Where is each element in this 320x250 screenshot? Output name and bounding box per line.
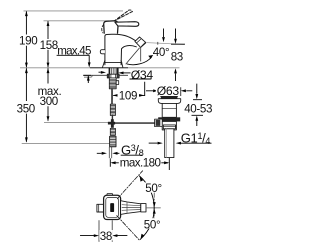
handle axis line [146, 207, 160, 209]
max.45 lower tick and up arrow (deck underside) [83, 75, 91, 83]
upper 50 degree dashed ray [117, 171, 142, 199]
handle grip [121, 201, 141, 215]
label 50deg lower [143, 218, 160, 228]
faucet lever blade [115, 22, 139, 27]
svg-text:40-53: 40-53 [184, 102, 212, 115]
svg-text:83: 83 [171, 50, 183, 63]
dimension 109 line and arrows [112, 82, 145, 100]
threaded section lower [110, 128, 115, 135]
pop-up rod horizontal to waste [114, 122, 156, 124]
svg-text:max.45: max.45 [57, 45, 91, 58]
waste flange [158, 99, 180, 104]
pop-up rod reference line (max.300) [44, 122, 108, 124]
dimension 158 vertical line [47, 21, 49, 67]
svg-text:50°: 50° [145, 182, 161, 195]
waste neck and body [162, 103, 176, 117]
dimension max.300 vertical line [47, 68, 49, 120]
faucet base [102, 60, 123, 67]
handle hub [104, 195, 121, 219]
faucet pop-up rod knob [100, 50, 105, 54]
label Ø63 [156, 86, 181, 96]
svg-text:50°: 50° [144, 219, 160, 232]
waste coupling nut [163, 125, 175, 129]
label 190 [18, 35, 37, 46]
dimension 38 arrows [80, 235, 127, 237]
upper 50 degree arc [139, 176, 154, 208]
svg-text:190: 190 [19, 35, 37, 48]
waste side outlet [155, 119, 163, 127]
label 158 [39, 39, 58, 49]
40 degree reference down arrow [163, 29, 165, 38]
mounting nut [107, 74, 119, 78]
waste tailpipe G1 1/4 [165, 129, 174, 158]
G1 1/4 leader arrow and underline [180, 142, 212, 144]
label 38 [99, 230, 112, 240]
lower 50 degree dashed ray [117, 216, 140, 241]
waste seal ring [158, 117, 180, 121]
rod side tab [116, 81, 119, 85]
leader max.45 down arrow to deck [88, 62, 91, 67]
deck slab top dark segment [90, 67, 128, 69]
dimension max.300 arrows [47, 68, 50, 122]
deck mounting surface line [20, 67, 180, 69]
label max.180 [119, 158, 162, 168]
G1 1/4 bracket left arrow [149, 142, 158, 144]
svg-text:38: 38 [100, 230, 112, 243]
svg-text:300: 300 [40, 95, 58, 108]
G3/8 underline [121, 154, 142, 156]
dimension Ø63 line, arrows, extension lines [146, 87, 192, 96]
40 degree angle vertical leg [140, 48, 142, 62]
svg-text:109: 109 [119, 90, 137, 103]
faucet raised lever dashed outline [102, 25, 104, 33]
handle hub slot [110, 203, 114, 212]
dimension Ø34 leader line and right arrow [124, 72, 131, 74]
shank through deck [109, 68, 117, 74]
faucet lever hub [104, 21, 118, 33]
svg-text:Ø34: Ø34 [131, 68, 154, 82]
reference line top of body (158) [44, 20, 110, 22]
leader max.45 underline [57, 55, 90, 62]
svg-text:40°: 40° [153, 46, 169, 59]
dimension 83 top: down arrow to outlet level [171, 29, 185, 45]
dimension 83 bottom: up arrow to deck [175, 73, 177, 81]
waste lower body [162, 121, 176, 129]
dimension 350 vertical line [25, 68, 27, 142]
stud segment [111, 89, 113, 104]
svg-text:G11/4: G11/4 [181, 130, 211, 146]
handle grip end cap [141, 204, 146, 212]
threaded rod upper [109, 78, 116, 89]
threaded section mid [110, 104, 115, 115]
G3/8 bracket arrows [97, 152, 120, 154]
dimension 190 arrows [25, 11, 28, 68]
dimension Ø34 left arrow [99, 71, 101, 73]
handle stem [97, 204, 104, 212]
deck break step [84, 75, 93, 77]
dimension 38 extension lines [99, 221, 112, 242]
spout outlet level reference line [147, 43, 184, 45]
deck slab bottom line [83, 74, 128, 76]
svg-text:max.180: max.180 [120, 157, 161, 170]
G3/8 hose stub extension lines [109, 147, 111, 160]
label 50deg upper [144, 182, 161, 192]
G3/8 hose nut [110, 136, 116, 147]
dimension 350 arrows [25, 68, 28, 143]
dimension 190 vertical line [25, 11, 27, 67]
aerator at 40 degrees [135, 37, 146, 47]
stud to tee [111, 116, 113, 120]
label 109 [118, 91, 140, 101]
upper arc arrowheads [153, 202, 156, 207]
handle hub top notch [107, 194, 113, 196]
lower arc arrowheads [153, 209, 156, 214]
40 degree spray line [126, 48, 140, 64]
tee cross [111, 119, 114, 128]
svg-text:Ø63: Ø63 [157, 84, 180, 98]
reference line top of raised lever (190) [24, 10, 124, 12]
waste plug cap [161, 94, 178, 97]
Ø34 underline [130, 78, 152, 80]
faucet body and spout [105, 34, 136, 65]
dimension 40-53 bottom arrow and tick [192, 115, 204, 126]
dimension max.180 line and arrows [110, 158, 169, 170]
svg-text:158: 158 [40, 39, 58, 52]
dimension 158 arrows [47, 21, 50, 68]
dimension 40-53 top arrow and tick [193, 84, 202, 100]
lower 50 degree arc [140, 208, 154, 240]
svg-text:350: 350 [17, 103, 35, 116]
hose end reference line (350) [22, 143, 111, 145]
40 degree arc with arrow [127, 57, 152, 65]
vertical reference dash line [153, 192, 155, 222]
